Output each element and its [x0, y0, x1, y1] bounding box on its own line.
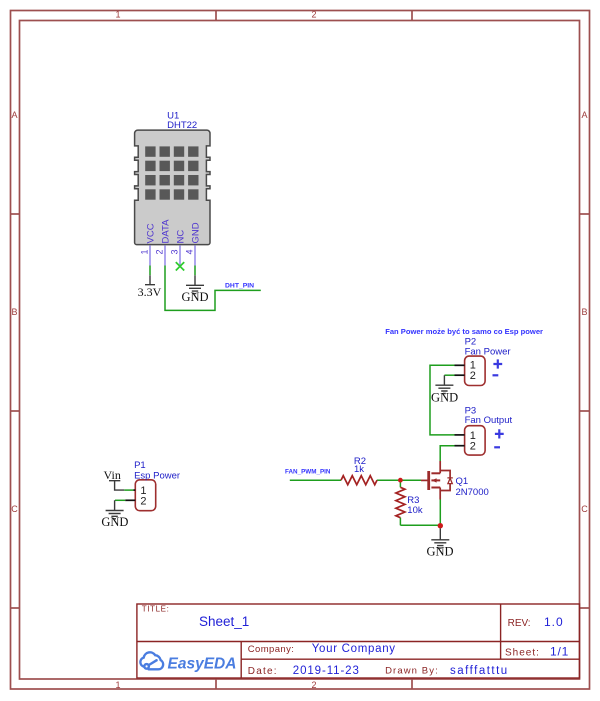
svg-text:Your Company: Your Company: [312, 643, 396, 655]
svg-text:1: 1: [115, 680, 120, 690]
svg-text:2: 2: [470, 370, 476, 382]
svg-text:Fan Output: Fan Output: [465, 415, 513, 426]
svg-text:C: C: [581, 504, 588, 514]
svg-text:A: A: [11, 110, 17, 120]
svg-text:1/1: 1/1: [550, 645, 569, 659]
svg-text:NC: NC: [176, 230, 187, 244]
svg-text:B: B: [11, 307, 17, 317]
svg-text:2: 2: [154, 249, 164, 254]
svg-text:2: 2: [311, 680, 316, 690]
svg-text:10k: 10k: [407, 505, 423, 516]
svg-text:2019-11-23: 2019-11-23: [293, 665, 360, 677]
svg-text:3.3V: 3.3V: [138, 285, 162, 299]
svg-text:Sheet:: Sheet:: [505, 647, 540, 658]
svg-text:2: 2: [311, 10, 316, 20]
svg-text:1: 1: [115, 10, 120, 20]
svg-text:GND: GND: [431, 391, 458, 405]
svg-text:3: 3: [169, 249, 179, 254]
svg-text:FAN_PWM_PIN: FAN_PWM_PIN: [285, 468, 331, 475]
svg-text:2N7000: 2N7000: [456, 487, 489, 498]
svg-text:A: A: [581, 110, 587, 120]
svg-text:1: 1: [139, 249, 149, 254]
svg-text:Q1: Q1: [456, 476, 469, 487]
svg-text:B: B: [581, 307, 587, 317]
svg-text:Sheet_1: Sheet_1: [199, 614, 249, 629]
svg-text:Fan Power może być to samo co: Fan Power może być to samo co Esp power: [385, 327, 543, 336]
svg-text:Vin: Vin: [104, 468, 121, 482]
svg-text:VCC: VCC: [146, 223, 157, 243]
svg-text:DHT22: DHT22: [167, 120, 197, 131]
svg-text:GND: GND: [191, 222, 202, 243]
svg-text:Date:: Date:: [248, 666, 278, 677]
svg-text:EasyEDA: EasyEDA: [168, 656, 237, 673]
svg-text:2: 2: [140, 495, 146, 507]
svg-text:TITLE:: TITLE:: [142, 605, 170, 614]
svg-text:Fan Power: Fan Power: [465, 346, 511, 357]
svg-text:DHT_PIN: DHT_PIN: [225, 283, 254, 290]
svg-text:Esp Power: Esp Power: [134, 470, 180, 481]
svg-text:2: 2: [470, 441, 476, 453]
svg-text:GND: GND: [426, 545, 453, 559]
svg-text:1k: 1k: [354, 464, 364, 475]
svg-text:Company:: Company:: [248, 644, 294, 655]
svg-text:4: 4: [184, 249, 194, 254]
svg-text:C: C: [11, 504, 18, 514]
svg-text:REV:: REV:: [508, 618, 531, 629]
svg-text:GND: GND: [101, 515, 128, 529]
svg-text:Drawn By:: Drawn By:: [385, 666, 439, 677]
svg-text:safffatttu: safffatttu: [450, 665, 509, 677]
svg-text:GND: GND: [181, 290, 208, 304]
svg-text:1.0: 1.0: [544, 615, 564, 629]
svg-text:DATA: DATA: [161, 219, 172, 244]
